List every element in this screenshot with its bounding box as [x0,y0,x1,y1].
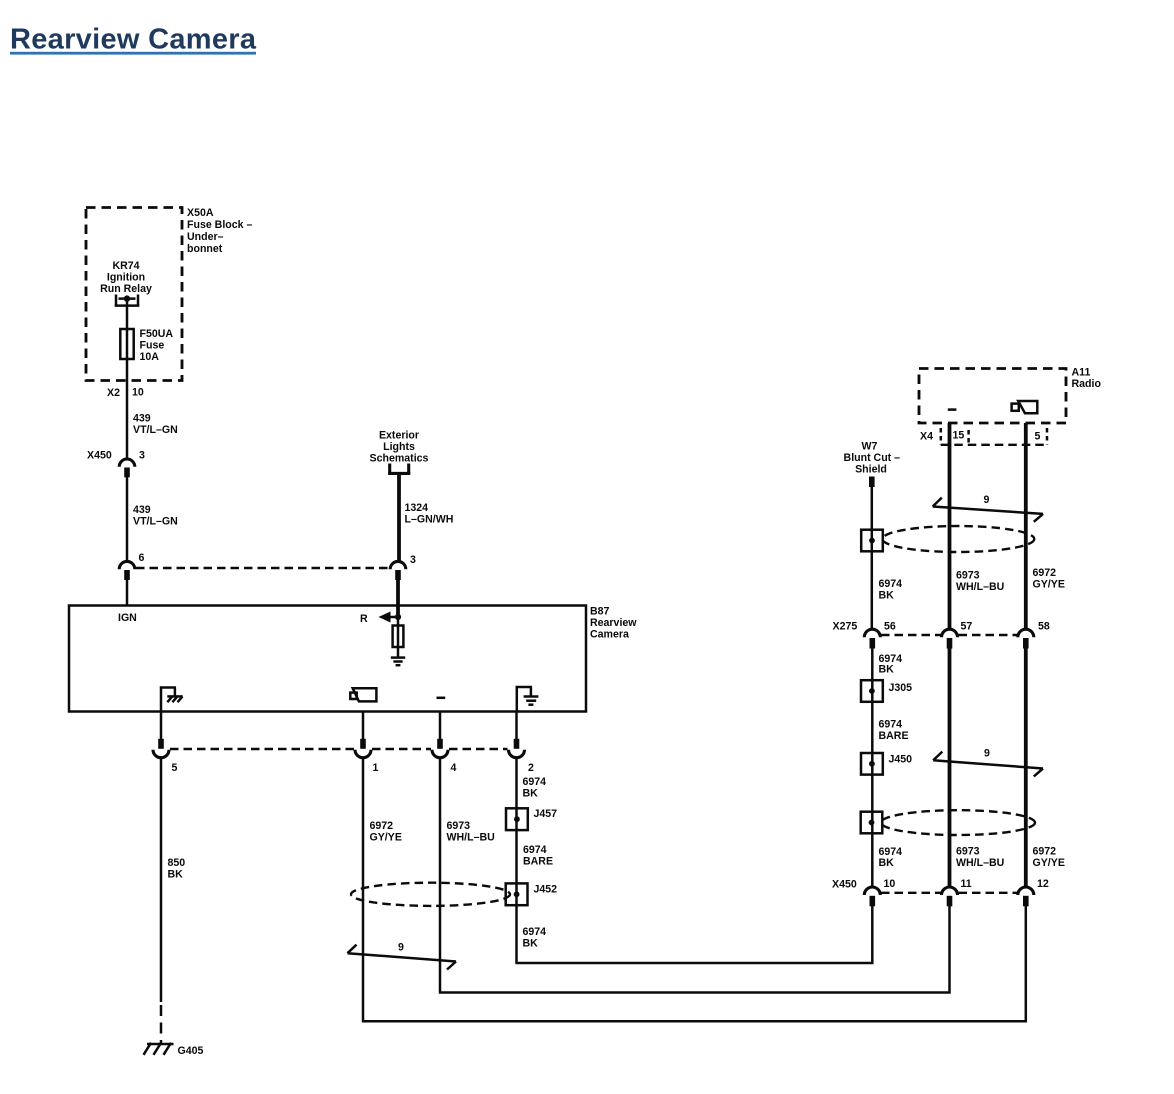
wire 6972 GY/YE routing [362,905,1026,1021]
svg-text:KR74: KR74 [112,260,139,272]
twisted-wires arrow 9 mid-right [933,748,1043,777]
svg-text:Run Relay: Run Relay [100,283,152,295]
svg-text:J452: J452 [534,884,558,896]
splice J305 [861,680,883,702]
relay KR74 contact symbol [115,295,140,307]
svg-text:1324: 1324 [405,502,429,514]
shield splice upper [861,530,883,552]
twisted-wires arrow 9 bottom-left [348,942,457,970]
svg-text:BK: BK [523,788,539,800]
off-page connector bracket [388,464,410,475]
ground G405 [144,1043,174,1055]
wire radio pin15 down [948,423,952,630]
svg-text:G405: G405 [178,1045,204,1057]
svg-text:A11: A11 [1072,367,1091,379]
svg-text:6973: 6973 [447,820,471,832]
connector X450 pin 11 [942,887,958,895]
fuse block X50A dashed box [86,208,182,381]
wire from relay through fuse to X450 [126,299,129,460]
svg-text:X450: X450 [832,879,857,891]
wire 6972 GY/YE right [1024,649,1028,888]
svg-text:10: 10 [884,878,896,890]
wire W7 shield drain [871,487,874,630]
svg-text:10A: 10A [140,351,160,363]
node R junction dot [395,614,401,620]
svg-text:L–GN/WH: L–GN/WH [405,514,454,526]
svg-text:BK: BK [523,938,539,950]
svg-text:BARE: BARE [879,730,909,742]
wire 6972 GY/YE left [362,758,365,1022]
ground internal earth symbol [391,658,405,666]
svg-text:Exterior: Exterior [379,430,419,442]
wire pin3 into B87 [396,580,400,617]
internal minus radio [948,408,957,411]
B87 Rearview Camera box [69,606,586,712]
label X50A Fuse Block - Underbonnet [187,207,252,255]
svg-text:BARE: BARE [523,856,553,868]
svg-text:X450: X450 [87,450,112,462]
svg-text:3: 3 [410,554,416,566]
svg-text:6973: 6973 [956,846,980,858]
svg-text:6974: 6974 [879,578,903,590]
svg-text:Shield: Shield [855,464,887,476]
svg-text:X2: X2 [107,387,120,399]
svg-text:WH/L–BU: WH/L–BU [956,857,1004,869]
wire 1324 L-GN/WH [397,475,401,562]
svg-text:6973: 6973 [956,570,980,582]
splice J457 [506,808,528,830]
svg-text:6974: 6974 [879,719,903,731]
wire pin6 into B87 [126,580,129,606]
shield splice lower [861,812,883,834]
svg-text:Blunt Cut –: Blunt Cut – [844,452,901,464]
wire radio pin5 down [1024,423,1028,630]
wire 850 BK [160,758,163,1002]
svg-text:F50UA: F50UA [140,328,174,340]
wire 6973 WH/L-BU left [439,758,442,993]
svg-text:X50A: X50A [187,207,214,219]
R arrow [389,616,398,619]
svg-text:R: R [360,613,368,625]
svg-text:Rearview: Rearview [590,617,637,629]
svg-text:WH/L–BU: WH/L–BU [956,581,1004,593]
svg-text:5: 5 [172,762,178,774]
svg-text:57: 57 [961,621,973,633]
wire B87 pin1 stub [362,711,365,741]
svg-text:IGN: IGN [118,612,137,624]
blunt cut terminal W7 [869,477,875,488]
svg-text:9: 9 [984,748,990,760]
label W7 Blunt Cut - Shield [844,441,901,476]
svg-text:Lights: Lights [383,441,415,453]
svg-text:10: 10 [132,387,144,399]
connector X450 pin 10 [864,887,880,895]
svg-text:6974: 6974 [523,776,547,788]
svg-text:6972: 6972 [370,820,394,832]
label Exterior Lights Schematics [370,430,429,465]
svg-text:Ignition: Ignition [107,272,145,284]
svg-text:3: 3 [139,450,145,462]
svg-text:5: 5 [1035,431,1041,443]
svg-text:X4: X4 [920,431,933,443]
label F50UA Fuse 10A [140,328,174,363]
svg-text:9: 9 [984,494,990,506]
svg-text:J305: J305 [889,682,913,694]
internal minus pin4 [437,697,446,700]
fuse F50UA 10A [120,329,133,359]
svg-text:9: 9 [398,942,404,954]
title underline [10,52,256,55]
internal camera icon radio [1012,401,1038,413]
svg-text:BK: BK [879,857,895,869]
svg-text:Camera: Camera [590,629,629,641]
connector X450 pin 12 [1018,887,1034,895]
splice J452 [506,883,528,905]
svg-text:J457: J457 [534,808,558,820]
svg-text:GY/YE: GY/YE [370,832,402,844]
label KR74 Ignition Run Relay [100,260,152,295]
wire 6974 BK to J305 [871,649,874,888]
svg-text:GY/YE: GY/YE [1033,579,1065,591]
svg-text:BK: BK [879,590,895,602]
svg-text:439: 439 [133,504,151,516]
svg-text:Fuse Block –: Fuse Block – [187,219,252,231]
svg-text:6972: 6972 [1033,846,1057,858]
svg-text:bonnet: bonnet [187,243,223,255]
svg-text:Schematics: Schematics [370,453,429,465]
dashed harness link pin6 to pin3 [136,567,389,569]
svg-text:VT/L–GN: VT/L–GN [133,516,178,528]
dashed connector body line [170,748,354,750]
svg-text:12: 12 [1037,878,1049,890]
A11 Radio dashed box [919,369,1066,424]
svg-text:Rearview Camera: Rearview Camera [10,23,257,55]
dashed wire to G405 [160,1005,163,1043]
shield ellipse upper right [882,526,1034,552]
svg-text:6: 6 [139,552,145,564]
twisted-wires arrow 9 upper-right [933,494,1043,522]
svg-text:J450: J450 [889,754,913,766]
svg-text:6974: 6974 [523,926,547,938]
wire 6974 BK routing to left [515,905,872,963]
wire 6973 WH/L-BU right [948,649,952,888]
svg-text:GY/YE: GY/YE [1033,857,1065,869]
svg-text:6972: 6972 [1033,567,1057,579]
svg-text:BK: BK [168,869,184,881]
internal chassis-ground icon pin5 [160,686,183,710]
splice J450 [861,753,883,775]
wire B87 pin4 stub [439,711,442,741]
connector pin 4 [437,739,443,749]
wire 439 VT/L-GN X450 to pin6 [126,477,129,562]
svg-text:B87: B87 [590,606,610,618]
svg-text:BK: BK [879,664,895,676]
dashed connector body X450 [881,892,941,894]
dashed connector body X275 [881,634,941,636]
svg-text:X275: X275 [833,621,858,633]
svg-text:1: 1 [373,762,379,774]
wire B87 pin5 stub [160,711,163,741]
connector pin 1 [360,739,366,749]
svg-text:W7: W7 [862,441,878,453]
svg-text:4: 4 [451,762,457,774]
wire B87 pin2 stub [515,711,518,741]
resistor internal [397,617,400,657]
connector X275 pin 57 [942,629,958,637]
connector X275 pin 58 [1018,629,1034,637]
connector X275 pin 56 [864,629,880,637]
shield ellipse lower right [881,810,1035,835]
svg-text:VT/L–GN: VT/L–GN [133,424,178,436]
label B87 Rearview Camera [590,606,637,641]
connector pin 2 [514,739,520,749]
svg-text:WH/L–BU: WH/L–BU [447,832,495,844]
svg-text:850: 850 [168,857,186,869]
svg-text:6974: 6974 [523,844,547,856]
svg-text:Fuse: Fuse [140,340,165,352]
wire 6974 BK left [515,758,518,963]
wire 6973 WH/L-BU routing [439,905,950,993]
svg-text:15: 15 [953,430,965,442]
internal camera icon pin1 [350,688,376,701]
svg-text:439: 439 [133,413,151,425]
svg-text:11: 11 [961,878,972,890]
connector pin 5 [158,739,164,749]
svg-text:Under–: Under– [187,231,224,243]
svg-text:2: 2 [528,762,534,774]
svg-text:Radio: Radio [1072,378,1102,390]
internal earth-ground icon pin2 [516,686,539,711]
svg-text:58: 58 [1038,621,1050,633]
shield ellipse left [351,883,510,906]
svg-text:56: 56 [884,621,896,633]
